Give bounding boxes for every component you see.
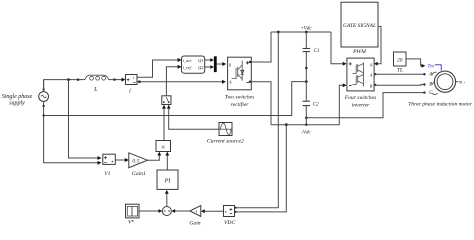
wire: mux to rectifier gate g bbox=[217, 62, 227, 66]
svg-text:Three phase induction motor: Three phase induction motor bbox=[408, 101, 472, 107]
wire: rectifier + output to +Vdc rail bbox=[249, 32, 271, 63]
svg-text:C2: C2 bbox=[313, 103, 319, 108]
svg-text:i_ref: i_ref bbox=[183, 65, 192, 70]
svg-text:Two switches: Two switches bbox=[225, 95, 255, 101]
svg-text:Gain: Gain bbox=[189, 220, 200, 226]
AC current source Current source2 bbox=[207, 123, 244, 145]
wire: AC+ top to inductor bbox=[44, 79, 80, 91]
wire: AC return to capacitor midpoint bbox=[42, 82, 306, 117]
svg-text:i_act: i_act bbox=[183, 58, 192, 63]
mux MUX1 bbox=[214, 56, 217, 72]
node M: capacitor midpoint bbox=[305, 68, 308, 83]
wire: -Vdc rail to VDC - sense bbox=[236, 125, 286, 212]
wire: i pass-through to rectifier A bbox=[137, 80, 226, 84]
svg-text:A: A bbox=[369, 72, 373, 77]
svg-text:GATE SIGNAL: GATE SIGNAL bbox=[343, 23, 376, 29]
current measurement i bbox=[126, 75, 138, 95]
svg-text:-1: -1 bbox=[194, 210, 197, 214]
svg-text:PI: PI bbox=[164, 177, 172, 184]
wire: PI to product bbox=[165, 152, 169, 170]
PI controller bbox=[157, 170, 178, 189]
wire: current source2 to manual switch bbox=[167, 105, 219, 130]
node Tm (motor torque input) bbox=[428, 64, 442, 70]
wire: Q2 to mux bbox=[205, 65, 214, 69]
sum junction S1 bbox=[162, 207, 171, 216]
wire: inverter A to motor A bbox=[374, 73, 426, 75]
svg-text:VDC: VDC bbox=[224, 220, 235, 226]
node m: motor measurement output bbox=[456, 80, 466, 86]
wire: V1 - sense from AC return bbox=[44, 116, 102, 165]
wire: motor C to capacitor midpoint leg bbox=[306, 91, 425, 117]
GATE SIGNAL block (PWM) bbox=[341, 2, 378, 55]
svg-text:›: › bbox=[463, 80, 465, 86]
capacitor C2 bbox=[303, 82, 320, 125]
svg-text:A: A bbox=[428, 72, 432, 77]
svg-text:g: g bbox=[370, 62, 372, 67]
-Vdc rail bbox=[271, 123, 339, 135]
svg-text:inverter: inverter bbox=[352, 102, 371, 108]
wire: i signal output to relay i_act bbox=[137, 58, 182, 77]
manual switch SW1 bbox=[162, 96, 171, 105]
wire: V1 + sense from node A bbox=[69, 80, 102, 160]
svg-text:Gain1: Gain1 bbox=[132, 171, 146, 177]
svg-text:A: A bbox=[228, 80, 232, 85]
svg-text:Tm: Tm bbox=[428, 64, 435, 69]
svg-text:Single phase: Single phase bbox=[2, 94, 33, 100]
svg-text:supply: supply bbox=[9, 100, 25, 106]
wire: V* to sum bbox=[139, 209, 162, 213]
wire: rectifier - output to -Vdc rail bbox=[249, 81, 271, 125]
svg-text:rectifier: rectifier bbox=[231, 101, 250, 108]
inductor L bbox=[79, 75, 116, 93]
svg-text:TL: TL bbox=[397, 67, 403, 73]
svg-text:C1: C1 bbox=[314, 49, 320, 54]
wire: Gain to sum bbox=[171, 209, 189, 213]
svg-text:×: × bbox=[161, 143, 165, 152]
svg-text:V*: V* bbox=[128, 220, 134, 226]
wire: Gain1 to product bbox=[147, 152, 161, 161]
wire: GATE SIGNAL to inverter g bbox=[374, 26, 381, 65]
svg-text:PWM: PWM bbox=[352, 49, 366, 55]
wire: VDC to Gain bbox=[201, 209, 224, 213]
AC source V_supply (single phase supply) bbox=[2, 80, 49, 116]
svg-text:0.5: 0.5 bbox=[132, 158, 139, 164]
voltage measurement VDC bbox=[224, 206, 237, 227]
svg-text:B: B bbox=[370, 83, 373, 88]
gain block Gain (-1) bbox=[189, 206, 200, 227]
svg-text:20: 20 bbox=[397, 57, 403, 63]
product block X1 bbox=[156, 141, 171, 152]
svg-text:L: L bbox=[93, 87, 98, 93]
relay (hysteresis controller) i_act/i_ref -> Q1/Q2 bbox=[182, 56, 205, 73]
wire: product output to manual switch bbox=[162, 105, 166, 141]
constant block TL (20) bbox=[394, 52, 407, 73]
wire: TL to motor Tm bbox=[406, 59, 425, 68]
wire: +Vdc rail to VDC + sense bbox=[236, 32, 278, 208]
voltage measurement V1 bbox=[103, 154, 116, 177]
wire: +Vdc rail to inverter + bbox=[331, 32, 347, 66]
wire: sum to PI bbox=[165, 190, 169, 207]
capacitor C1 bbox=[303, 32, 320, 69]
svg-text:Four switches: Four switches bbox=[344, 95, 377, 101]
node A: junction supply/inductor/V1 bbox=[67, 78, 70, 81]
rectifier U1 (two switches rectifier) bbox=[225, 57, 255, 108]
svg-text:-Vdc: -Vdc bbox=[301, 131, 311, 136]
wire: inductor to current sensor i bbox=[116, 78, 126, 82]
wire: V1 to Gain1 bbox=[115, 158, 129, 162]
wire: Q1 to mux bbox=[205, 58, 214, 62]
wire: -Vdc rail to inverter - bbox=[339, 83, 346, 124]
svg-text:m: m bbox=[459, 80, 463, 86]
+Vdc rail bbox=[271, 27, 331, 34]
svg-text:Current source2: Current source2 bbox=[207, 138, 244, 144]
constant block V* bbox=[126, 204, 140, 225]
svg-text:Q1: Q1 bbox=[198, 58, 203, 63]
motor M1 (three phase induction motor) bbox=[408, 71, 472, 107]
gain block Gain1 (0.5) bbox=[129, 153, 148, 177]
svg-text:Q2: Q2 bbox=[198, 65, 204, 70]
svg-text:B: B bbox=[429, 82, 432, 87]
svg-text:g: g bbox=[229, 62, 231, 67]
inverter U2 (four switches inverter) bbox=[344, 58, 377, 108]
svg-text:V1: V1 bbox=[104, 171, 110, 177]
wire: manual switch output to relay i_ref bbox=[166, 65, 181, 96]
wire: inverter B to motor B bbox=[374, 83, 426, 86]
